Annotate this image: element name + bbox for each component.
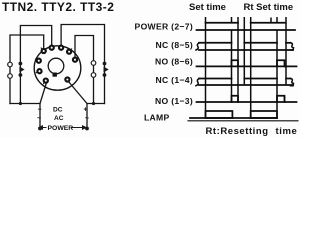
- svg-text:Set time: Set time: [189, 2, 226, 13]
- svg-text:TTN2. TTY2. TT3-2: TTN2. TTY2. TT3-2: [2, 0, 114, 14]
- svg-text:NO (8−6): NO (8−6): [155, 57, 193, 67]
- svg-text:LAMP: LAMP: [144, 112, 170, 122]
- svg-text:+: +: [84, 107, 88, 114]
- svg-text:DC: DC: [53, 107, 63, 114]
- svg-text:NC (8−5): NC (8−5): [155, 40, 193, 50]
- svg-text:AC: AC: [54, 115, 64, 122]
- svg-text:~: ~: [85, 116, 89, 123]
- svg-text:−: −: [38, 107, 42, 114]
- svg-text:NO (1−3): NO (1−3): [155, 96, 193, 106]
- svg-text:POWER: POWER: [48, 125, 74, 132]
- svg-text:~: ~: [37, 116, 41, 123]
- svg-text:POWER (2−7): POWER (2−7): [135, 22, 193, 32]
- svg-text:Rt Set time: Rt Set time: [244, 2, 294, 13]
- svg-text:NC (1−4): NC (1−4): [155, 75, 193, 85]
- svg-text:Rt:Resetting time: Rt:Resetting time: [206, 126, 298, 137]
